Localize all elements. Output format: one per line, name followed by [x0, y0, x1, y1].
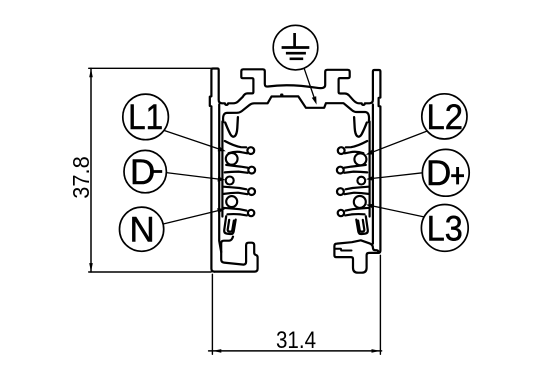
dimension 31.4 extension line left — [211, 274, 213, 354]
wire left insulator spine — [221, 122, 223, 217]
dimension 31.4 line — [209, 350, 382, 352]
ground symbol bar 1 — [282, 46, 310, 49]
svg-text:31.4: 31.4 — [276, 327, 316, 354]
wire right insulator arm 4 — [345, 208, 369, 216]
wire aluminum profile outer outline — [210, 69, 381, 273]
svg-text:D: D — [130, 153, 155, 192]
label circle L3 — [421, 205, 468, 252]
ground symbol circle — [273, 25, 318, 70]
leader D+ — [373, 173, 423, 179]
dimension 37.8 arrow top — [89, 69, 93, 78]
leader L2 — [372, 131, 427, 152]
dimension 31.4 extension line right — [379, 255, 381, 354]
ground symbol bar 2 — [286, 52, 306, 55]
conductor N — [226, 196, 237, 207]
wire right insulator top finger — [354, 117, 367, 136]
leader L3 — [373, 206, 424, 217]
leader N — [163, 211, 219, 225]
dimension 37.8 extension line top — [89, 67, 212, 69]
ground symbol bar 3 — [290, 57, 304, 60]
label circle D+ — [422, 149, 469, 196]
wire right insulator bottom hook — [356, 216, 368, 234]
wire right hook internal tongue — [335, 249, 352, 251]
wire left insulator bottom hook — [224, 216, 236, 234]
wire right insulator spine — [369, 122, 371, 217]
dimension 37.8 arrow bottom — [89, 263, 93, 272]
conductor L1 — [226, 153, 238, 165]
leader L1 — [164, 131, 219, 150]
svg-text:L1: L1 — [128, 98, 163, 137]
wire left insulator arm 1 — [225, 141, 248, 153]
wire left insulator arm 2 — [225, 165, 248, 173]
wire right wall inner surface — [372, 105, 374, 244]
wire right insulator arm 1 — [345, 141, 368, 153]
wire left insulator arm 4 — [223, 208, 247, 216]
label circle L2 — [422, 94, 467, 139]
svg-text:L2: L2 — [427, 98, 464, 137]
label circle N — [120, 207, 164, 251]
dimension 31.4 arrow right — [372, 349, 381, 353]
label circle D- — [124, 150, 166, 192]
svg-text:L3: L3 — [427, 209, 463, 248]
wire left insulator arm 3 — [223, 187, 247, 195]
wire cavity ceiling — [223, 95, 369, 123]
dimension 37.8 extension line bottom — [89, 271, 212, 273]
ground leader arrow — [304, 69, 314, 98]
conductor L2 — [354, 153, 366, 165]
conductor D+ — [357, 177, 365, 185]
wire right insulator arm 2 — [344, 165, 367, 173]
ground symbol stem — [293, 33, 296, 47]
label circle L1 — [123, 94, 169, 140]
conductor D- — [226, 177, 234, 185]
wire right insulator arm 3 — [345, 187, 369, 195]
wire left wall inner surface — [219, 105, 221, 253]
dimension 37.8 line — [90, 68, 92, 272]
wire left insulator top finger — [225, 117, 238, 136]
svg-text:D: D — [426, 154, 451, 193]
dimension 31.4 arrow left — [213, 349, 222, 353]
wire bottom-left mounting hook — [214, 237, 257, 272]
svg-text:N: N — [130, 210, 155, 249]
conductor L3 — [354, 196, 366, 208]
leader D- — [166, 173, 219, 180]
svg-text:37.8: 37.8 — [68, 156, 94, 199]
